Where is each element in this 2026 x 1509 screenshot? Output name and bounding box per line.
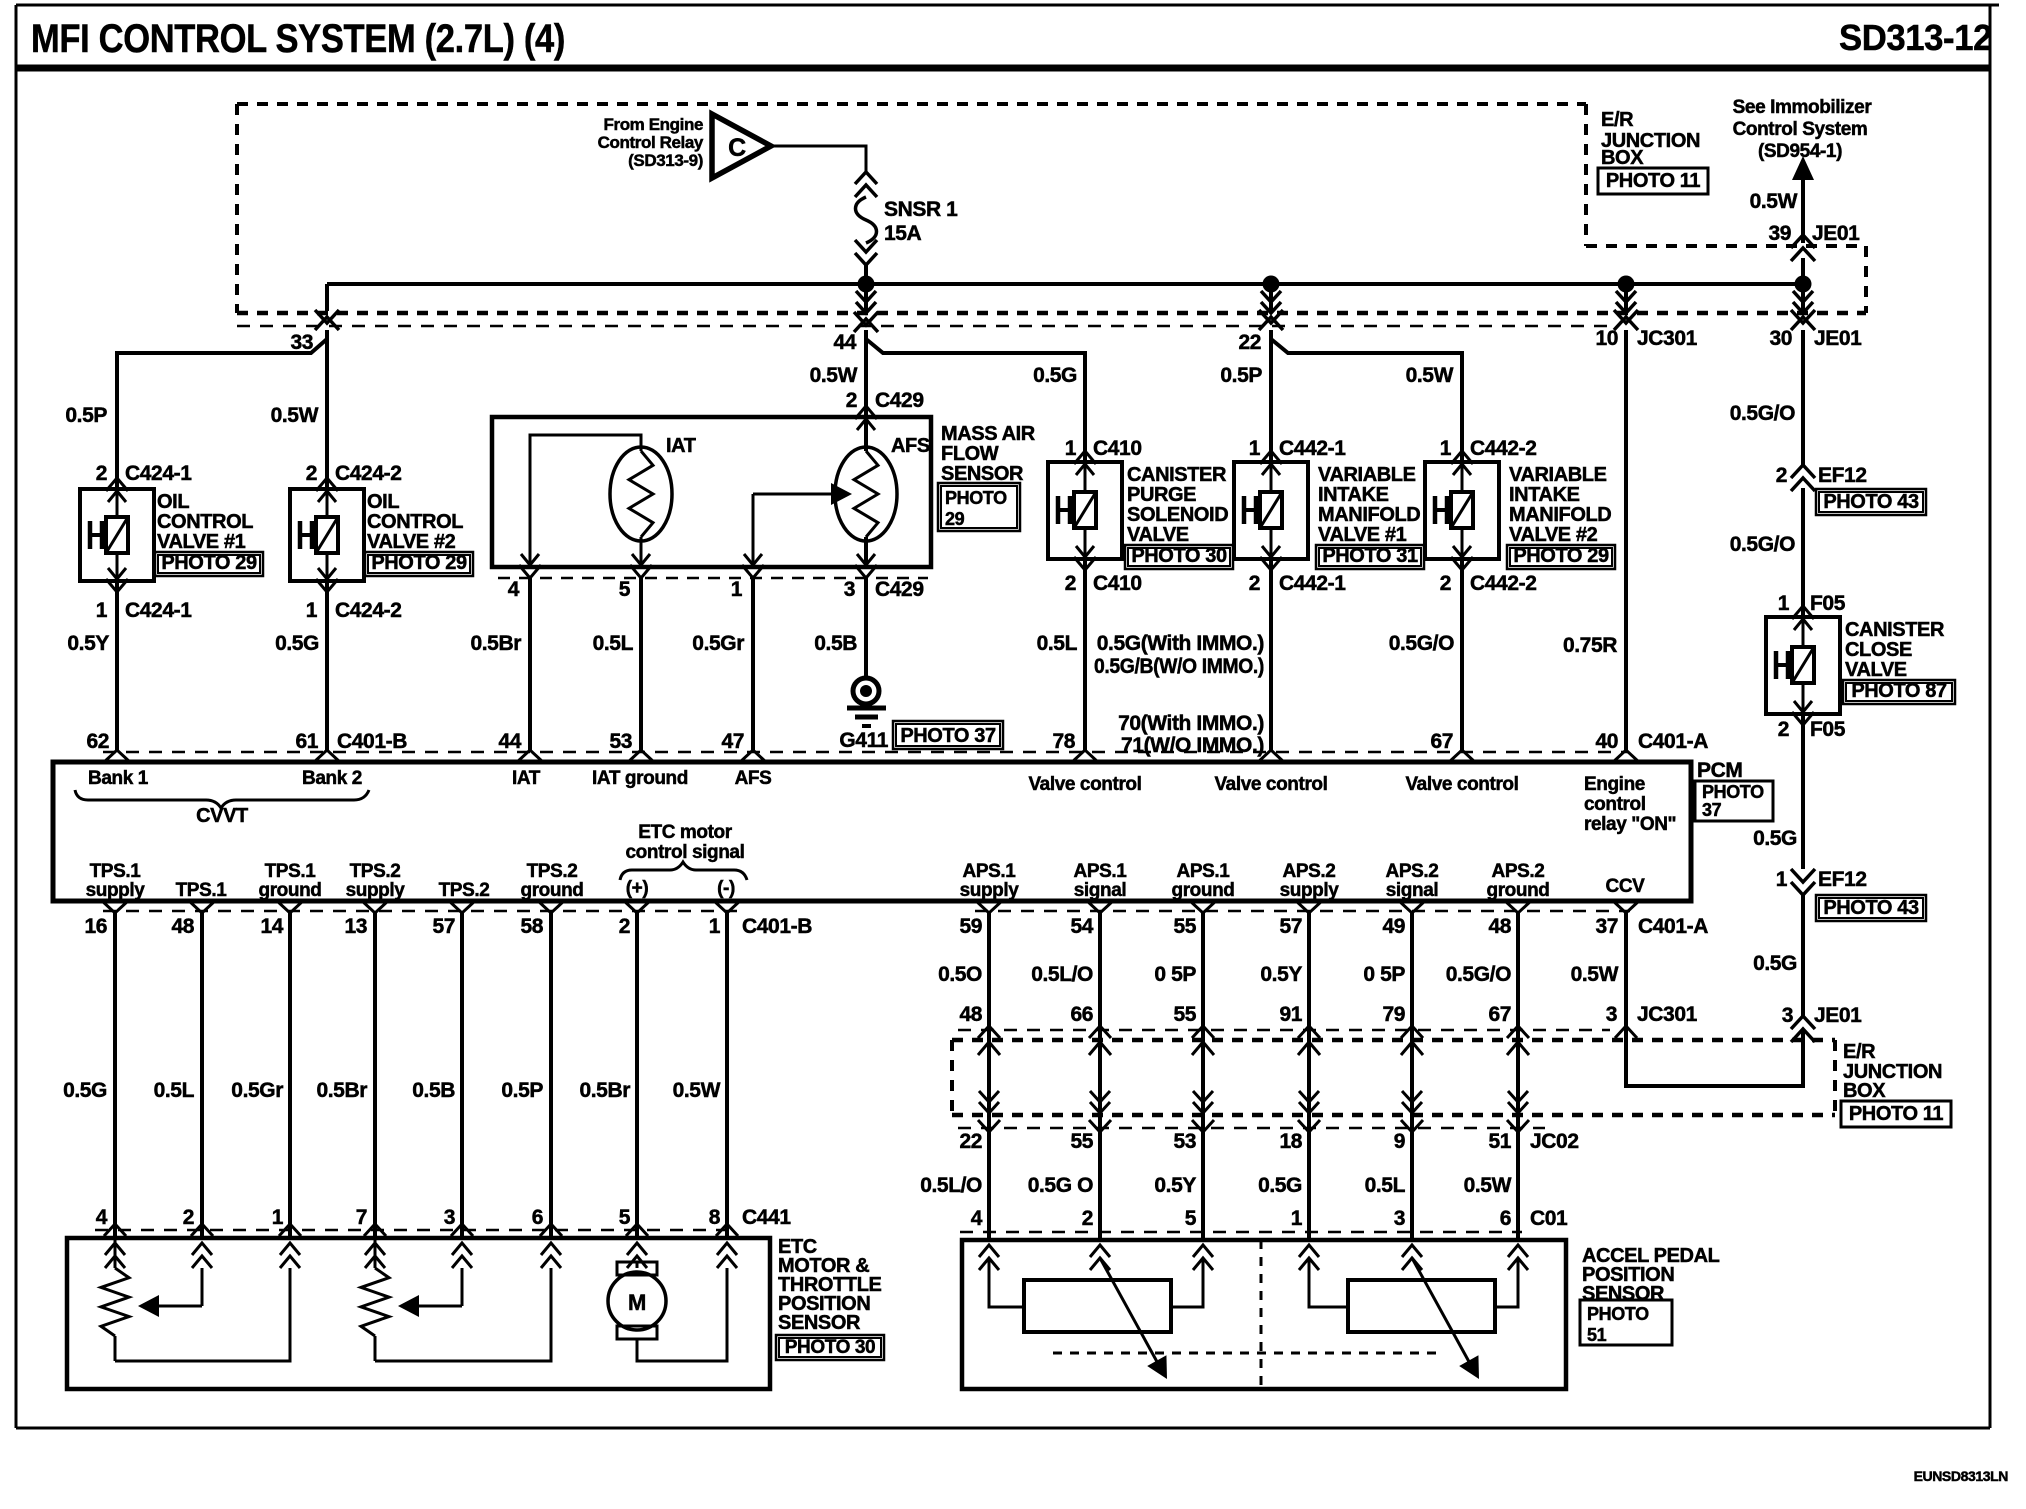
label E/R JUNCTION BOX (lower) bbox=[1841, 1041, 1951, 1127]
APS.1 wiper arrow bbox=[1100, 1258, 1167, 1379]
svg-text:0.5P: 0.5P bbox=[65, 404, 107, 427]
wire MAF pin4 to PCM pin 44 (IAT) bbox=[528, 578, 532, 750]
svg-text:PHOTO 30: PHOTO 30 bbox=[785, 1337, 875, 1358]
svg-text:Control Relay: Control Relay bbox=[598, 133, 704, 152]
svg-text:51: 51 bbox=[1587, 1325, 1607, 1345]
svg-text:relay "ON": relay "ON" bbox=[1584, 814, 1676, 835]
svg-text:VALVE #2: VALVE #2 bbox=[367, 531, 456, 553]
svg-text:3: 3 bbox=[844, 578, 855, 601]
svg-text:55: 55 bbox=[1070, 1130, 1093, 1153]
svg-text:JE01: JE01 bbox=[1814, 327, 1862, 350]
label E/R JUNCTION BOX (top) bbox=[1598, 109, 1708, 194]
fuse SNSR 1 15A bbox=[855, 172, 958, 265]
svg-text:29: 29 bbox=[945, 509, 965, 529]
svg-text:C442-2: C442-2 bbox=[1470, 572, 1536, 595]
wire MAF pin1 to PCM pin 47 (AFS) bbox=[751, 578, 755, 750]
svg-text:49: 49 bbox=[1382, 915, 1405, 938]
svg-text:0.5W: 0.5W bbox=[271, 404, 319, 427]
svg-text:67: 67 bbox=[1430, 730, 1453, 753]
svg-text:2: 2 bbox=[619, 915, 630, 938]
svg-text:0.5L/O: 0.5L/O bbox=[1031, 963, 1093, 986]
wires JC02 to C01 bbox=[989, 1132, 1518, 1240]
svg-text:From Engine: From Engine bbox=[604, 115, 704, 134]
wire AFS element (C429 pin2 through) bbox=[864, 417, 868, 567]
svg-text:1: 1 bbox=[1249, 437, 1261, 460]
wire power bus bbox=[327, 282, 1803, 286]
svg-text:1: 1 bbox=[1291, 1207, 1303, 1230]
svg-text:Control System: Control System bbox=[1733, 119, 1868, 140]
canister close valve bbox=[1766, 606, 1955, 725]
svg-text:APS.1: APS.1 bbox=[1074, 861, 1128, 882]
svg-text:ground: ground bbox=[520, 880, 583, 901]
label ACCEL PEDAL POSITION SENSOR bbox=[1580, 1245, 1720, 1345]
svg-text:53: 53 bbox=[609, 730, 632, 753]
svg-text:F05: F05 bbox=[1810, 718, 1846, 741]
svg-text:PHOTO: PHOTO bbox=[1702, 782, 1764, 802]
connector 2 EF12 bbox=[1776, 464, 1926, 515]
svg-text:2: 2 bbox=[306, 462, 317, 485]
svg-text:MASS AIR: MASS AIR bbox=[941, 423, 1036, 445]
svg-text:C429: C429 bbox=[875, 389, 924, 412]
svg-text:37: 37 bbox=[1702, 800, 1722, 820]
wire connector 33 to oil control valves bbox=[117, 330, 327, 489]
svg-text:JC301: JC301 bbox=[1637, 1003, 1698, 1026]
svg-text:58: 58 bbox=[520, 915, 543, 938]
svg-text:0.5Y: 0.5Y bbox=[67, 632, 109, 655]
IAT thermistor bbox=[610, 435, 696, 541]
wire valve1 pin1 to PCM pin 62 bbox=[115, 581, 119, 750]
svg-text:PURGE: PURGE bbox=[1127, 484, 1196, 506]
svg-text:EF12: EF12 bbox=[1818, 464, 1867, 487]
svg-text:0.5G/O: 0.5G/O bbox=[1730, 402, 1795, 425]
wire C410-2 to PCM pin 78 bbox=[1083, 559, 1087, 750]
label See Immobilizer Control System (SD954-1) bbox=[1733, 97, 1873, 162]
svg-text:FLOW: FLOW bbox=[941, 443, 999, 465]
svg-text:62: 62 bbox=[86, 730, 109, 753]
svg-text:VARIABLE: VARIABLE bbox=[1509, 464, 1607, 486]
AFS sensing element bbox=[835, 435, 930, 541]
svg-text:14: 14 bbox=[260, 915, 283, 938]
svg-text:4: 4 bbox=[508, 578, 520, 601]
junction dot at JC301 column bbox=[1618, 276, 1635, 293]
canister purge solenoid valve bbox=[1048, 451, 1233, 570]
wire valve2 pin1 to PCM pin 61 bbox=[325, 581, 329, 750]
svg-text:7: 7 bbox=[356, 1206, 367, 1229]
wire bus drop to connector 10 JC301 bbox=[1616, 284, 1636, 313]
svg-text:0.5Y: 0.5Y bbox=[1260, 963, 1302, 986]
svg-text:C424-2: C424-2 bbox=[335, 599, 401, 622]
variable intake manifold valve #1 bbox=[1234, 451, 1424, 570]
connector JC301 pins row bbox=[958, 1003, 1698, 1030]
wire JE01-3 into E/R junction box to JC301-3 bbox=[1626, 1029, 1803, 1086]
pin 2 F05 bbox=[1778, 718, 1846, 741]
svg-text:6: 6 bbox=[1500, 1207, 1511, 1230]
svg-text:SENSOR: SENSOR bbox=[778, 1312, 861, 1334]
svg-text:VALVE: VALVE bbox=[1127, 524, 1189, 546]
svg-text:C424-1: C424-1 bbox=[125, 599, 192, 622]
svg-text:0.5B: 0.5B bbox=[412, 1079, 455, 1102]
svg-text:1: 1 bbox=[1440, 437, 1452, 460]
svg-text:22: 22 bbox=[959, 1130, 982, 1153]
svg-text:control: control bbox=[1584, 794, 1646, 815]
svg-text:0.5Gr: 0.5Gr bbox=[231, 1079, 283, 1102]
svg-text:PHOTO 37: PHOTO 37 bbox=[900, 725, 996, 747]
svg-text:0.5G: 0.5G bbox=[275, 632, 319, 655]
wires PCM to ETC motor & throttle position sensor bbox=[115, 913, 727, 1238]
svg-text:0 5P: 0 5P bbox=[1154, 963, 1196, 986]
svg-text:MANIFOLD: MANIFOLD bbox=[1318, 504, 1420, 526]
svg-text:(+): (+) bbox=[626, 878, 649, 899]
svg-text:ground: ground bbox=[1486, 880, 1549, 901]
svg-text:See Immobilizer: See Immobilizer bbox=[1733, 97, 1873, 118]
svg-text:G411: G411 bbox=[839, 729, 888, 752]
svg-text:signal: signal bbox=[1074, 880, 1127, 901]
svg-text:3: 3 bbox=[1394, 1207, 1405, 1230]
svg-text:control signal: control signal bbox=[626, 842, 745, 863]
svg-text:8: 8 bbox=[709, 1206, 721, 1229]
svg-text:C410: C410 bbox=[1093, 572, 1142, 595]
svg-text:13: 13 bbox=[344, 915, 367, 938]
svg-text:VARIABLE: VARIABLE bbox=[1318, 464, 1416, 486]
wire color labels APS row2 bbox=[920, 1174, 1511, 1197]
svg-text:1: 1 bbox=[1776, 868, 1788, 891]
wire bus drop to connector 22 bbox=[1261, 284, 1281, 313]
svg-text:C442-2: C442-2 bbox=[1470, 437, 1536, 460]
ETC motor M bbox=[608, 1262, 727, 1361]
svg-text:55: 55 bbox=[1173, 915, 1196, 938]
svg-text:ETC motor: ETC motor bbox=[638, 822, 733, 843]
wires through lower E/R junction box bbox=[978, 1042, 1529, 1122]
wire connector 44 to MAF sensor and canister purge valve bbox=[866, 330, 1085, 462]
brace CVVT (Bank1-Bank2) bbox=[75, 790, 369, 827]
pin 2 C442-1 bbox=[1249, 572, 1346, 595]
svg-text:16: 16 bbox=[84, 915, 107, 938]
accel pedal position sensor box bbox=[962, 1240, 1566, 1389]
svg-text:0 5P: 0 5P bbox=[1363, 963, 1405, 986]
svg-text:2: 2 bbox=[1082, 1207, 1093, 1230]
connector 3 JE01 bbox=[1782, 1004, 1862, 1042]
svg-text:supply: supply bbox=[346, 880, 406, 901]
svg-text:0.5O: 0.5O bbox=[938, 963, 982, 986]
wire C442-1 pin2 to PCM pin 70/71 bbox=[1269, 559, 1273, 750]
APS.1 potentiometer bbox=[989, 1258, 1203, 1332]
svg-text:78: 78 bbox=[1052, 730, 1075, 753]
svg-text:44: 44 bbox=[833, 331, 856, 354]
svg-text:0.5L: 0.5L bbox=[154, 1079, 195, 1102]
svg-text:IAT: IAT bbox=[666, 435, 696, 457]
wire color labels TPS bbox=[63, 1079, 721, 1102]
PCM bottom pins TPS row bbox=[84, 900, 812, 938]
svg-text:MFI CONTROL SYSTEM (2.7L) (4): MFI CONTROL SYSTEM (2.7L) (4) bbox=[31, 17, 565, 61]
svg-text:APS.1: APS.1 bbox=[1177, 861, 1231, 882]
pin 1 C442-2 bbox=[1440, 437, 1537, 460]
junction dot at JE01 column bbox=[1795, 276, 1812, 293]
svg-text:TPS.2: TPS.2 bbox=[439, 880, 490, 901]
svg-text:JC301: JC301 bbox=[1637, 327, 1698, 350]
svg-text:APS.2: APS.2 bbox=[1386, 861, 1439, 882]
svg-text:1: 1 bbox=[1065, 437, 1077, 460]
PCM internal labels top row bbox=[88, 768, 1676, 835]
wire C442-2 pin2 to PCM pin 67 bbox=[1460, 559, 1464, 750]
pin 2 C424-2 bbox=[306, 462, 402, 485]
connector chevrons JC301 row bbox=[978, 1026, 1637, 1038]
svg-text:9: 9 bbox=[1394, 1130, 1405, 1153]
svg-text:2: 2 bbox=[183, 1206, 194, 1229]
svg-text:JE01: JE01 bbox=[1814, 1004, 1862, 1027]
junction dot at AFS column bbox=[858, 276, 875, 293]
wire CCV from PCM pin 37 to JC301-3 bbox=[1624, 913, 1628, 1040]
svg-text:0.5G: 0.5G bbox=[1033, 364, 1077, 387]
svg-text:3: 3 bbox=[444, 1206, 455, 1229]
TPS.2 wiper arrow bbox=[398, 1268, 462, 1317]
wire MAF pin5 to PCM pin 53 (IAT ground) bbox=[639, 578, 643, 750]
wire from relay connector to fuse bbox=[770, 146, 866, 172]
pin 2 C429 (MAF top) bbox=[846, 389, 924, 430]
wire color labels APS row1 bbox=[938, 963, 1619, 986]
svg-text:C441: C441 bbox=[742, 1206, 791, 1229]
wire JE01-39 to bus bbox=[1801, 258, 1805, 284]
arrow to immobilizer control system bbox=[1792, 156, 1814, 243]
connector JC02 pins row bbox=[958, 1120, 1579, 1153]
svg-text:PHOTO 31: PHOTO 31 bbox=[1322, 545, 1418, 567]
svg-text:0.5P: 0.5P bbox=[1220, 364, 1262, 387]
svg-text:0.5W: 0.5W bbox=[1571, 963, 1619, 986]
svg-text:4: 4 bbox=[971, 1207, 983, 1230]
wire bus drop to connector 30 JE01 bbox=[1793, 284, 1813, 313]
wire EF12-1 to JE01-3 bbox=[1801, 895, 1805, 1016]
pin 1 C424-1 bbox=[96, 599, 192, 622]
svg-text:1: 1 bbox=[306, 599, 318, 622]
connector C441 pins row bbox=[95, 1206, 791, 1230]
svg-text:BOX: BOX bbox=[1843, 1080, 1886, 1102]
svg-text:44: 44 bbox=[498, 730, 521, 753]
svg-text:C401-A: C401-A bbox=[1638, 730, 1708, 753]
svg-text:TPS.1: TPS.1 bbox=[265, 861, 317, 882]
svg-text:2: 2 bbox=[1778, 718, 1789, 741]
oil control valve #1 (solenoid) bbox=[80, 478, 263, 592]
svg-text:(SD313-9): (SD313-9) bbox=[628, 151, 703, 170]
connector row dashed line under E/R box bbox=[237, 325, 1608, 328]
svg-text:SOLENOID: SOLENOID bbox=[1127, 504, 1228, 526]
connector 44 bbox=[833, 312, 878, 354]
wire labels 0.5G(With IMMO.) 0.5G/B(W/O IMMO.) bbox=[1094, 632, 1264, 678]
svg-text:0.5P: 0.5P bbox=[501, 1079, 543, 1102]
svg-text:0.5Br: 0.5Br bbox=[470, 632, 521, 655]
svg-text:37: 37 bbox=[1595, 915, 1618, 938]
ETC box pin chevrons bbox=[104, 1224, 738, 1268]
svg-text:0.5G/B(W/O IMMO.): 0.5G/B(W/O IMMO.) bbox=[1094, 655, 1264, 678]
svg-text:0.5W: 0.5W bbox=[810, 364, 858, 387]
svg-text:AFS: AFS bbox=[735, 768, 772, 789]
pin 2 C442-2 bbox=[1440, 572, 1537, 595]
svg-text:C01: C01 bbox=[1530, 1207, 1568, 1230]
svg-text:0.5W: 0.5W bbox=[1750, 190, 1798, 213]
svg-text:33: 33 bbox=[290, 331, 313, 354]
svg-text:(SD954-1): (SD954-1) bbox=[1758, 141, 1842, 162]
svg-text:(-): (-) bbox=[717, 878, 735, 899]
svg-text:TPS.2: TPS.2 bbox=[350, 861, 401, 882]
svg-text:0.75R: 0.75R bbox=[1563, 634, 1617, 657]
wire MAF pin3 to ground G411 bbox=[864, 578, 868, 677]
svg-text:C401-B: C401-B bbox=[742, 915, 812, 938]
svg-text:C442-1: C442-1 bbox=[1279, 437, 1346, 460]
svg-text:CONTROL: CONTROL bbox=[157, 511, 253, 533]
TPS.2 return wire bbox=[375, 1268, 551, 1361]
svg-text:CLOSE: CLOSE bbox=[1845, 639, 1912, 661]
TPS.2 potentiometer resistor bbox=[361, 1238, 389, 1361]
wire connector 22 to intake manifold valves bbox=[1271, 330, 1462, 462]
svg-text:54: 54 bbox=[1070, 915, 1093, 938]
wire fuse to bus junction bbox=[864, 265, 868, 284]
junction dot at C442-1 column bbox=[1263, 276, 1280, 293]
svg-text:PHOTO 11: PHOTO 11 bbox=[1849, 1103, 1944, 1125]
wire EF12 to F05 bbox=[1801, 488, 1805, 617]
svg-text:55: 55 bbox=[1173, 1003, 1196, 1026]
svg-text:F05: F05 bbox=[1810, 592, 1846, 615]
svg-text:PCM: PCM bbox=[1697, 759, 1742, 782]
svg-text:1: 1 bbox=[731, 578, 743, 601]
PCM bottom pins APS row bbox=[959, 900, 1708, 938]
svg-text:0.5L: 0.5L bbox=[593, 632, 634, 655]
svg-text:IAT ground: IAT ground bbox=[592, 768, 688, 789]
svg-text:PHOTO 29: PHOTO 29 bbox=[161, 552, 257, 574]
PCM internal labels APS row bbox=[960, 861, 1646, 901]
svg-text:E/R: E/R bbox=[1843, 1041, 1876, 1063]
svg-text:JC02: JC02 bbox=[1530, 1130, 1579, 1153]
svg-text:APS.2: APS.2 bbox=[1283, 861, 1336, 882]
svg-text:0.5Y: 0.5Y bbox=[1154, 1174, 1196, 1197]
svg-text:0.5G: 0.5G bbox=[1258, 1174, 1302, 1197]
mass air flow sensor box bbox=[492, 417, 931, 567]
svg-text:CVVT: CVVT bbox=[196, 805, 248, 827]
svg-text:70(With IMMO.): 70(With IMMO.) bbox=[1118, 712, 1264, 735]
APS box pin chevrons bbox=[979, 1245, 1528, 1270]
connector C01 pins row bbox=[960, 1207, 1568, 1232]
svg-text:SNSR 1: SNSR 1 bbox=[884, 198, 958, 221]
svg-text:Valve control: Valve control bbox=[1028, 774, 1141, 795]
TPS.1 return wire bbox=[115, 1268, 290, 1361]
svg-text:IAT: IAT bbox=[512, 768, 541, 789]
svg-text:71(W/O IMMO.): 71(W/O IMMO.) bbox=[1121, 734, 1264, 757]
wire IAT ground to pin 5 bbox=[640, 537, 643, 567]
svg-text:10: 10 bbox=[1595, 327, 1618, 350]
svg-text:2: 2 bbox=[846, 389, 857, 412]
MAF bottom pins 4 5 1 3 C429 bbox=[498, 554, 928, 601]
PCM internal labels bottom row bbox=[86, 822, 745, 901]
svg-text:C424-1: C424-1 bbox=[125, 462, 192, 485]
svg-text:18: 18 bbox=[1279, 1130, 1302, 1153]
svg-text:Engine: Engine bbox=[1584, 774, 1645, 795]
svg-text:57: 57 bbox=[432, 915, 455, 938]
svg-text:TPS.1: TPS.1 bbox=[90, 861, 142, 882]
svg-text:AFS: AFS bbox=[891, 435, 930, 457]
svg-text:0.5B: 0.5B bbox=[814, 632, 857, 655]
svg-text:TPS.1: TPS.1 bbox=[176, 880, 228, 901]
svg-text:0.5G: 0.5G bbox=[1753, 952, 1797, 975]
svg-text:C: C bbox=[728, 134, 746, 162]
svg-text:1: 1 bbox=[272, 1206, 284, 1229]
svg-text:53: 53 bbox=[1173, 1130, 1196, 1153]
svg-text:PHOTO 11: PHOTO 11 bbox=[1606, 170, 1701, 192]
svg-text:JE01: JE01 bbox=[1812, 222, 1860, 245]
svg-text:OIL: OIL bbox=[367, 491, 399, 513]
svg-text:TPS.2: TPS.2 bbox=[527, 861, 578, 882]
TPS.1 potentiometer resistor bbox=[101, 1238, 129, 1361]
svg-text:0.5L: 0.5L bbox=[1365, 1174, 1406, 1197]
svg-text:BOX: BOX bbox=[1601, 147, 1644, 169]
svg-text:0.5W: 0.5W bbox=[1464, 1174, 1512, 1197]
svg-text:E/R: E/R bbox=[1601, 109, 1634, 131]
svg-text:6: 6 bbox=[532, 1206, 543, 1229]
svg-text:Valve control: Valve control bbox=[1214, 774, 1327, 795]
ground G411 bbox=[839, 678, 1003, 752]
label PHOTO 37 (PCM) bbox=[1695, 781, 1773, 821]
svg-text:C401-B: C401-B bbox=[337, 730, 407, 753]
svg-text:15A: 15A bbox=[884, 222, 922, 245]
svg-text:supply: supply bbox=[1280, 880, 1340, 901]
E/R junction box boundary (lower right) bbox=[952, 1040, 1835, 1115]
wire IAT to pin 4 bbox=[530, 435, 641, 567]
svg-text:48: 48 bbox=[171, 915, 194, 938]
svg-text:C442-1: C442-1 bbox=[1279, 572, 1346, 595]
svg-text:0.5L: 0.5L bbox=[1037, 632, 1078, 655]
svg-text:3: 3 bbox=[1606, 1003, 1617, 1026]
label From Engine Control Relay (SD313-9) bbox=[598, 115, 704, 170]
svg-text:ground: ground bbox=[1171, 880, 1234, 901]
svg-text:PHOTO 30: PHOTO 30 bbox=[1131, 545, 1227, 567]
svg-text:0.5G: 0.5G bbox=[63, 1079, 107, 1102]
svg-text:INTAKE: INTAKE bbox=[1509, 484, 1580, 506]
svg-text:0.5G O: 0.5G O bbox=[1028, 1174, 1093, 1197]
brace ETC motor control signal bbox=[620, 862, 747, 880]
svg-text:48: 48 bbox=[1488, 915, 1511, 938]
APS.2 potentiometer bbox=[1309, 1258, 1518, 1332]
wires PCM to accel pedal position sensor bbox=[989, 913, 1518, 1240]
svg-text:PHOTO 29: PHOTO 29 bbox=[1513, 545, 1609, 567]
wire JE01-30 down to EF12 bbox=[1801, 330, 1805, 465]
svg-text:VALVE #2: VALVE #2 bbox=[1509, 524, 1598, 546]
svg-text:0.5L/O: 0.5L/O bbox=[920, 1174, 982, 1197]
pin 1 C442-1 bbox=[1249, 437, 1346, 460]
svg-text:2: 2 bbox=[96, 462, 107, 485]
svg-text:Bank 1: Bank 1 bbox=[88, 768, 149, 789]
svg-text:1: 1 bbox=[1778, 592, 1790, 615]
svg-text:PHOTO: PHOTO bbox=[945, 488, 1007, 508]
connector 22 bbox=[1238, 310, 1283, 354]
svg-text:OIL: OIL bbox=[157, 491, 189, 513]
variable intake manifold valve #2 bbox=[1425, 451, 1615, 570]
svg-text:C401-A: C401-A bbox=[1638, 915, 1708, 938]
svg-text:MANIFOLD: MANIFOLD bbox=[1509, 504, 1611, 526]
AFS signal wire with arrow to pin 1 bbox=[753, 483, 852, 567]
svg-text:C424-2: C424-2 bbox=[335, 462, 401, 485]
ETC motor & throttle position sensor box bbox=[67, 1238, 770, 1389]
svg-text:4: 4 bbox=[96, 1206, 108, 1229]
svg-text:Bank 2: Bank 2 bbox=[302, 768, 362, 789]
svg-text:51: 51 bbox=[1488, 1130, 1511, 1153]
E/R junction box boundary (top) bbox=[237, 104, 1866, 313]
APS mechanical link dashed lines bbox=[1053, 1240, 1436, 1389]
svg-text:40: 40 bbox=[1595, 730, 1618, 753]
svg-text:1: 1 bbox=[709, 915, 721, 938]
svg-text:INTAKE: INTAKE bbox=[1318, 484, 1389, 506]
svg-text:PHOTO 29: PHOTO 29 bbox=[371, 552, 467, 574]
svg-text:VALVE #1: VALVE #1 bbox=[157, 531, 246, 553]
off-page connector C (from engine control relay) bbox=[712, 114, 771, 178]
svg-text:supply: supply bbox=[86, 880, 146, 901]
connector 30 JE01 bbox=[1769, 310, 1862, 350]
pin 2 C410 bbox=[1065, 572, 1142, 595]
